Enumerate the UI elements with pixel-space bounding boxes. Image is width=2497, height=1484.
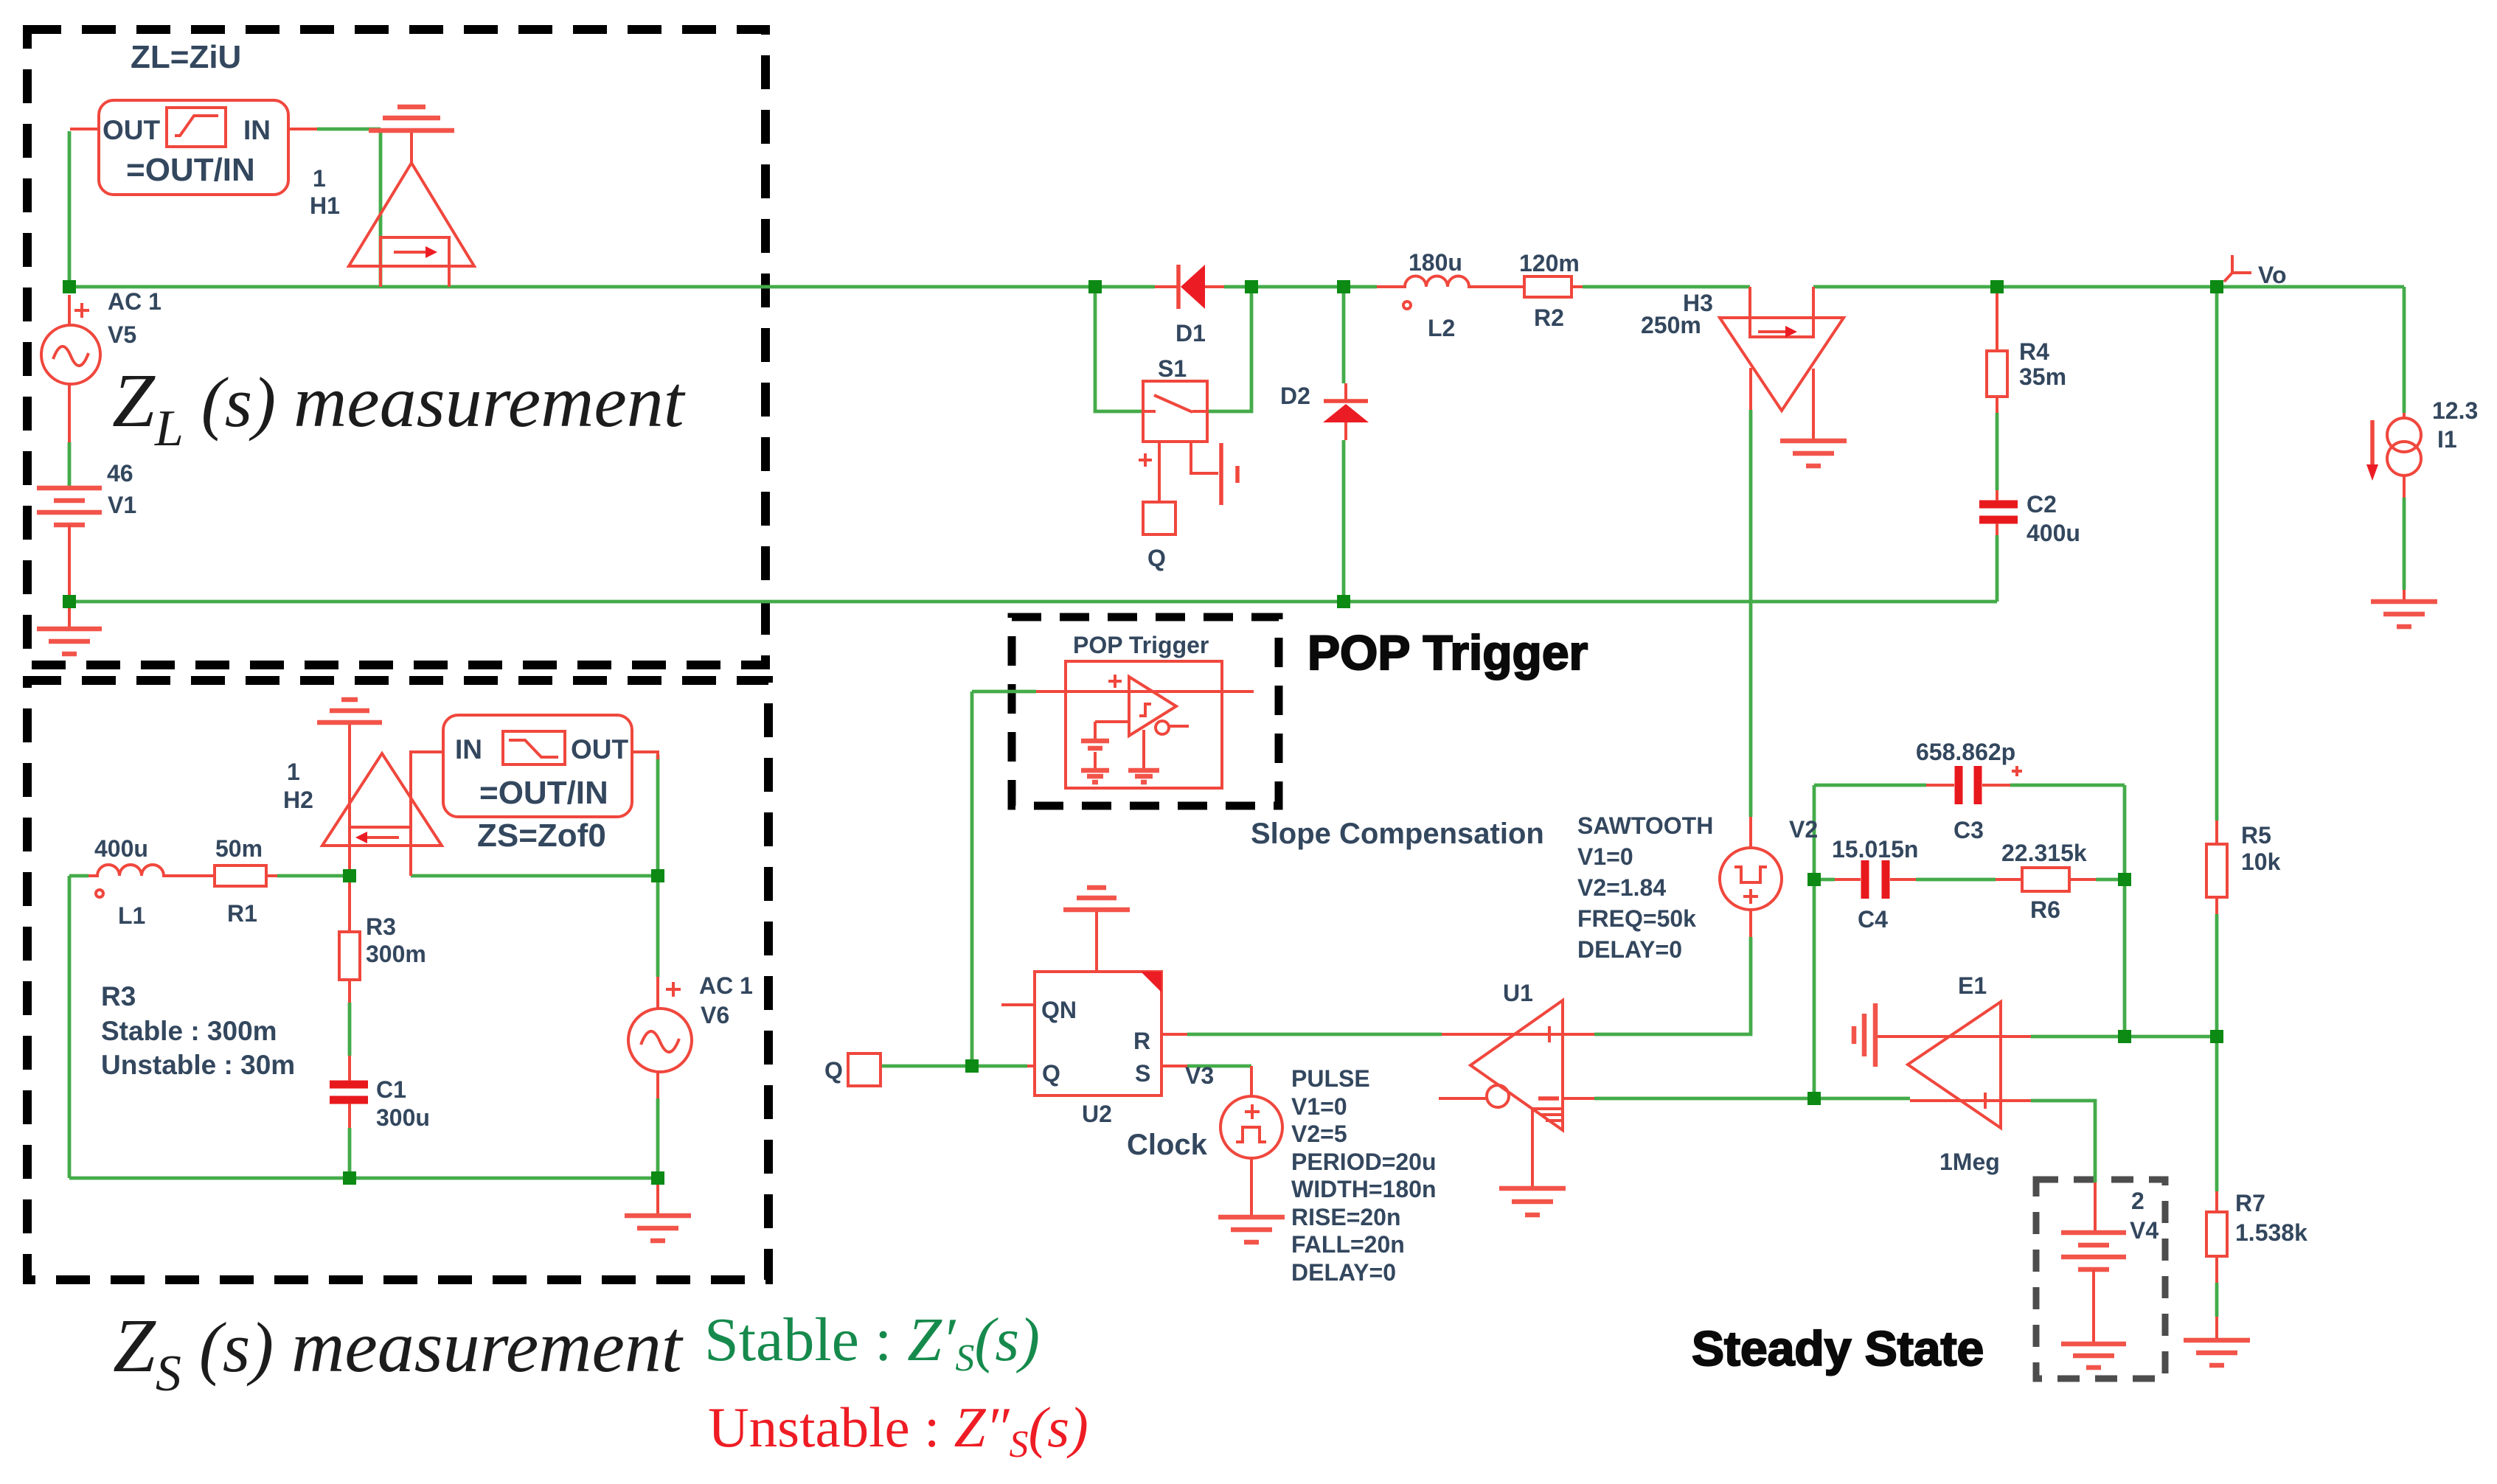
svg-text:400u: 400u: [2027, 520, 2080, 546]
svg-text:C4: C4: [1858, 906, 1888, 933]
node V1 bottom: [63, 595, 76, 608]
op-amp H1: [349, 163, 474, 266]
ground I1: [2371, 599, 2437, 605]
dashed box V4: [2036, 1180, 2165, 1379]
resistor R2: [1524, 276, 1572, 297]
wire: S1 right drop: [1207, 287, 1251, 411]
ZL transfer block =OUT/IN: [99, 100, 288, 195]
svg-text:1: 1: [313, 165, 326, 192]
wire: R4-C2 chain: [1996, 413, 1999, 490]
svg-text:AC 1: AC 1: [699, 972, 753, 999]
svg-text:400u: 400u: [94, 835, 148, 862]
resistor R4: [1987, 351, 2007, 397]
svg-text:R1: R1: [227, 900, 257, 927]
svg-text:V1: V1: [108, 492, 136, 518]
svg-text:Q: Q: [824, 1057, 843, 1084]
battery V4: [2094, 1182, 2097, 1233]
op-amp H2: [322, 753, 442, 846]
svg-text:1.538k: 1.538k: [2235, 1219, 2307, 1246]
pin Q of S1: [1143, 502, 1175, 534]
capacitor C3: [1955, 766, 1963, 804]
svg-text:C1: C1: [376, 1076, 406, 1103]
wire: ZS main row: [69, 874, 88, 878]
pin Q square: [848, 1053, 881, 1086]
node R6 right: [2118, 873, 2131, 886]
flip-flop U2: [1035, 972, 1161, 1095]
svg-text:E1: E1: [1958, 972, 1987, 999]
wire: feedback top row: [1814, 784, 1926, 787]
node R3 top: [343, 869, 356, 882]
resistor R7: [2206, 1212, 2227, 1256]
svg-text:Clock: Clock: [1127, 1129, 1208, 1161]
svg-text:R2: R2: [1534, 304, 1564, 331]
svg-text:46: 46: [107, 460, 133, 487]
dashed box ZS measurement: [27, 680, 768, 1280]
inductor L2: [1377, 276, 1500, 288]
wire: main top rail: [69, 285, 1155, 289]
svg-text:POP Trigger: POP Trigger: [1073, 632, 1209, 658]
svg-text:Slope Compensation: Slope Compensation: [1251, 818, 1544, 850]
ZS transfer block =OUT/IN: [443, 715, 632, 817]
node Vo: [2210, 280, 2223, 293]
wire: IN lead to H1: [317, 128, 381, 131]
svg-text:FALL=20n: FALL=20n: [1291, 1231, 1405, 1258]
svg-text:R: R: [1133, 1028, 1150, 1054]
svg-text:PERIOD=20u: PERIOD=20u: [1291, 1149, 1437, 1175]
svg-text:Unstable : Z″S(s): Unstable : Z″S(s): [708, 1396, 1088, 1466]
svg-text:V2=5: V2=5: [1291, 1121, 1347, 1147]
svg-text:R3: R3: [366, 913, 396, 940]
ground V6: [656, 1178, 659, 1216]
svg-text:S1: S1: [1158, 355, 1187, 382]
wire: S1 left drop: [1095, 287, 1143, 411]
svg-text:R4: R4: [2019, 338, 2049, 365]
wire: bottom rail: [69, 600, 1997, 604]
svg-text:2: 2: [2131, 1188, 2144, 1214]
svg-text:15.015n: 15.015n: [1832, 836, 1918, 863]
svg-text:250m: 250m: [1641, 312, 1701, 338]
svg-text:35m: 35m: [2019, 363, 2066, 390]
wire: C2 bottom riser: [1996, 535, 1999, 602]
svg-text:V6: V6: [701, 1002, 729, 1028]
node V6 bottom: [651, 1171, 664, 1185]
wire: ZL source branch: [68, 131, 72, 287]
svg-text:U2: U2: [1082, 1101, 1112, 1127]
ground E1 (sideways): [1873, 1003, 1878, 1067]
node C1 bottom: [343, 1171, 356, 1185]
ground R7: [2184, 1338, 2250, 1343]
wire: R5 to E1 row: [2215, 914, 2219, 1037]
ground U1: [1499, 1186, 1566, 1191]
wire: U1 minus row to E1: [1814, 1097, 1910, 1101]
wire: U2 R row to U1: [1187, 1033, 1442, 1037]
wire: feedback left vertical: [1813, 785, 1816, 1098]
current source I1: [2387, 418, 2421, 452]
wire: C4 to R6: [1916, 878, 1996, 882]
svg-text:658.862p: 658.862p: [1916, 739, 2015, 765]
svg-text:Stable : 300m: Stable : 300m: [101, 1016, 277, 1046]
resistor R6: [2022, 868, 2069, 891]
svg-text:H1: H1: [310, 192, 340, 219]
wire: E1 row to R7: [2215, 1037, 2219, 1191]
ground H1 (inverted): [410, 130, 413, 163]
svg-text:300m: 300m: [366, 941, 426, 967]
dashed box POP Trigger: [1012, 617, 1279, 806]
switch S1: [1143, 381, 1207, 442]
node C4 left: [1807, 873, 1821, 886]
wire: ZS left leg: [68, 876, 72, 1178]
svg-text:DELAY=0: DELAY=0: [1577, 936, 1682, 963]
wire: E1 bottom row to V4: [2031, 1101, 2095, 1182]
svg-text:PULSE: PULSE: [1291, 1065, 1370, 1092]
wire: POP row entry: [972, 690, 1036, 694]
svg-text:C2: C2: [2027, 491, 2057, 518]
svg-text:R6: R6: [2030, 896, 2060, 923]
wire H2 to IN: [411, 752, 443, 827]
svg-text:V1=0: V1=0: [1291, 1093, 1347, 1120]
comparator U1: [1470, 1000, 1563, 1130]
node Q out: [965, 1059, 979, 1073]
svg-text:FREQ=50k: FREQ=50k: [1577, 905, 1696, 932]
svg-text:1: 1: [287, 759, 300, 785]
ground V3: [1218, 1215, 1285, 1220]
svg-text:H2: H2: [283, 787, 313, 813]
svg-text:180u: 180u: [1409, 249, 1462, 276]
wire: OUT lead drop to V6: [656, 755, 660, 977]
svg-text:D2: D2: [1280, 383, 1310, 409]
ground V1: [37, 627, 102, 632]
wire: V2 to U1 plus row: [1594, 937, 1751, 1034]
svg-text:AC 1: AC 1: [108, 288, 162, 315]
op-amp E1: [1908, 1002, 2001, 1128]
svg-text:POP Trigger: POP Trigger: [1307, 625, 1588, 680]
svg-text:V4: V4: [2130, 1217, 2159, 1244]
svg-text:ZS=Zof0: ZS=Zof0: [477, 818, 606, 854]
node D2 bottom: [1337, 595, 1350, 608]
node D1 right: [1245, 280, 1258, 293]
svg-text:S: S: [1135, 1060, 1150, 1087]
svg-text:Stable : Z′S(s): Stable : Z′S(s): [704, 1306, 1040, 1379]
node E1 out mid: [2118, 1030, 2131, 1043]
op-amp H3: [1720, 318, 1844, 411]
source V3 clock: [1220, 1096, 1282, 1158]
diode D1: [1176, 265, 1181, 309]
svg-text:I1: I1: [2437, 426, 2457, 453]
svg-text:50m: 50m: [215, 835, 263, 862]
svg-text:U1: U1: [1503, 980, 1533, 1006]
svg-text:Q: Q: [1147, 545, 1166, 571]
ground U2 (inverted): [1095, 910, 1098, 972]
resistor R3: [339, 932, 360, 980]
svg-text:300u: 300u: [376, 1104, 430, 1131]
POP comparator: [1129, 677, 1176, 736]
wire: R7 to ground: [2215, 1283, 2219, 1317]
wire: E1 top output row: [2031, 1035, 2217, 1039]
POP battery and grounds: [1094, 722, 1097, 741]
svg-text:QN: QN: [1041, 997, 1077, 1023]
svg-text:V5: V5: [108, 321, 136, 348]
svg-text:12.3: 12.3: [2432, 397, 2478, 424]
source V2 sawtooth: [1720, 848, 1782, 910]
node E1 plus left: [1807, 1092, 1821, 1105]
diode D2: [1324, 399, 1368, 403]
wire: C4 row left: [1814, 878, 1835, 882]
svg-text:V2: V2: [1789, 816, 1818, 843]
svg-text:Q: Q: [1042, 1060, 1060, 1087]
ground H2 (inverted): [317, 720, 382, 725]
svg-text:22.315k: 22.315k: [2001, 840, 2087, 866]
wire: Vo rail down to R5: [2215, 287, 2219, 821]
battery V1: [37, 486, 102, 491]
capacitor C1: [330, 1081, 368, 1089]
ground H3: [1780, 439, 1847, 444]
node D2 top: [1337, 280, 1350, 293]
svg-text:V1=0: V1=0: [1577, 843, 1633, 870]
svg-text:=OUT/IN: =OUT/IN: [126, 152, 255, 188]
svg-text:10k: 10k: [2241, 849, 2281, 875]
wire: D2 branch: [1342, 287, 1346, 383]
svg-text:C3: C3: [1954, 817, 1984, 843]
svg-text:V3: V3: [1185, 1062, 1214, 1089]
wire: R3-C1 link: [348, 1003, 352, 1056]
wire: H3 to V2 drop: [1749, 410, 1753, 817]
node R4 top: [1990, 280, 2004, 293]
wire: I1 bottom link: [2403, 498, 2406, 590]
source V5: [41, 325, 100, 384]
svg-text:IN: IN: [455, 734, 482, 764]
POP trigger inner box: [1066, 661, 1222, 788]
wire: V6 to bottom rail: [656, 1098, 660, 1178]
wire: ZS bottom rail: [69, 1177, 658, 1180]
svg-text:D1: D1: [1175, 320, 1206, 346]
svg-text:WIDTH=180n: WIDTH=180n: [1291, 1176, 1436, 1202]
wire: U1 minus row: [1594, 1097, 1814, 1101]
svg-text:L1: L1: [118, 902, 145, 929]
wire: Q row: [880, 1065, 1027, 1068]
svg-text:OUT: OUT: [103, 115, 161, 145]
svg-text:IN: IN: [243, 115, 271, 145]
resistor R1: [215, 865, 266, 886]
svg-text:R5: R5: [2241, 822, 2271, 849]
svg-text:L2: L2: [1428, 315, 1455, 341]
node E1 out right: [2210, 1030, 2223, 1043]
dashed box ZL measurement: [27, 29, 765, 665]
svg-text:DELAY=0: DELAY=0: [1291, 1259, 1396, 1286]
source V6: [628, 1009, 692, 1072]
svg-text:SAWTOOTH: SAWTOOTH: [1577, 812, 1713, 839]
node V6 top: [651, 869, 664, 882]
wire: Q riser to POP row: [970, 692, 974, 1066]
svg-text:V2=1.84: V2=1.84: [1577, 874, 1666, 901]
svg-text:ZL=ZiU: ZL=ZiU: [131, 39, 241, 75]
svg-text:Unstable : 30m: Unstable : 30m: [101, 1050, 295, 1080]
node V5 top: [63, 280, 76, 293]
inductor L1: [88, 865, 206, 876]
svg-text:1Meg: 1Meg: [1939, 1149, 2000, 1175]
node D1 left: [1088, 280, 1102, 293]
svg-text:R7: R7: [2235, 1190, 2265, 1216]
wire: S row: [1187, 1065, 1251, 1068]
svg-text:Steady State: Steady State: [1692, 1321, 1984, 1376]
wire: H1 IN drop: [379, 130, 383, 287]
resistor R5: [2206, 844, 2227, 897]
svg-text:=OUT/IN: =OUT/IN: [479, 775, 608, 811]
wire: V1 links: [68, 442, 72, 488]
wire: C1 to bottom rail: [348, 1128, 352, 1178]
svg-text:OUT: OUT: [571, 734, 629, 764]
wire: right drop to I1: [2403, 287, 2406, 413]
capacitor C2: [1979, 501, 2018, 509]
probe Vo: [2224, 255, 2232, 282]
wire: feedback right vertical: [2123, 785, 2127, 1037]
svg-text:RISE=20n: RISE=20n: [1291, 1204, 1401, 1230]
capacitor C4: [1861, 860, 1869, 899]
svg-text:Vo: Vo: [2258, 262, 2287, 288]
svg-text:R3: R3: [101, 981, 136, 1011]
ground V4: [2061, 1342, 2126, 1347]
svg-text:120m: 120m: [1519, 250, 1580, 276]
wire: R6 to junction: [2096, 878, 2125, 882]
